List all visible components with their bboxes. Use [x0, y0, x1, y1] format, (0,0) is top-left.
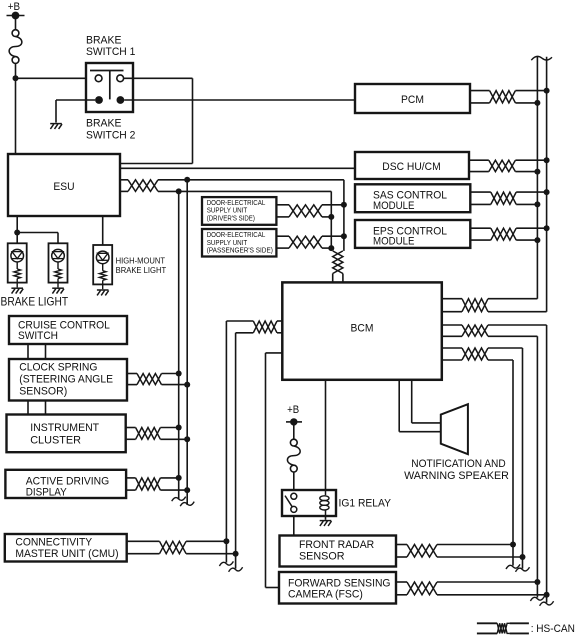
- svg-text:SWITCH 1: SWITCH 1: [86, 46, 135, 58]
- speaker notification and warning: [441, 404, 468, 454]
- module SAS CONTROL MODULE: [355, 184, 470, 212]
- svg-text:MODULE: MODULE: [373, 200, 415, 212]
- wire ESU to high-mount brake light: [102, 216, 104, 245]
- svg-text:FORWARD SENSING: FORWARD SENSING: [288, 577, 391, 589]
- svg-text:BCM: BCM: [351, 322, 374, 334]
- node PCM CAN-L: [534, 100, 540, 106]
- relay IG1 RELAY box: [282, 490, 336, 516]
- node driver CAN-H: [341, 202, 347, 208]
- wire node to brake switch: [16, 77, 96, 79]
- node driver CAN-L: [328, 214, 334, 220]
- module CLOCK SPRING (STEERING ANGLE SENSOR): [9, 359, 127, 401]
- twisted pair BCM to lower right bus: [442, 324, 462, 326]
- twisted pair instrument cluster CAN: [126, 427, 136, 429]
- left CAN bus line B: [186, 180, 188, 505]
- svg-text:DOOR-ELECTRICAL: DOOR-ELECTRICAL: [207, 200, 266, 207]
- node cluster CAN-H: [176, 425, 182, 431]
- twisted pair clock spring CAN: [127, 373, 137, 375]
- wire ESU to DSC HU/CM: [120, 167, 355, 169]
- legend HS-CAN twisted pair symbol: [477, 622, 497, 624]
- node FSC CAN-H: [534, 579, 540, 585]
- svg-text:(DRIVER'S SIDE): (DRIVER'S SIDE): [207, 216, 255, 223]
- svg-text:INSTRUMENT: INSTRUMENT: [30, 422, 99, 434]
- lamp high-mount brake light: [93, 245, 112, 284]
- svg-text:BRAKE LIGHT: BRAKE LIGHT: [1, 294, 69, 308]
- svg-text:MODULE: MODULE: [373, 236, 415, 248]
- node DSC CAN-H: [544, 157, 550, 163]
- wire ESU to brake lights: [16, 216, 18, 243]
- twisted pair BCM to right bus upper: [442, 298, 462, 300]
- wire fuse to relay: [293, 472, 295, 490]
- module DOOR-ELECTRICAL SUPPLY UNIT (PASSENGER'S SIDE): [202, 229, 276, 257]
- svg-text:WARNING SPEAKER: WARNING SPEAKER: [404, 470, 509, 482]
- twisted pair door unit driver: [277, 204, 289, 206]
- wire clock spring to instrument cluster: [27, 401, 29, 415]
- svg-text:DSC HU/CM: DSC HU/CM: [382, 161, 440, 173]
- svg-text:NOTIFICATION AND: NOTIFICATION AND: [411, 458, 505, 470]
- fusible link IG1: [290, 439, 297, 446]
- twisted pair DSC CAN: [469, 159, 489, 161]
- switch plunger bar: [90, 70, 124, 72]
- node CMU CAN-L: [233, 551, 239, 557]
- svg-text:SUPPLY UNIT: SUPPLY UNIT: [207, 240, 248, 247]
- twisted pair BCM to CMU: [277, 320, 282, 322]
- bus terminator CMU B: [229, 567, 243, 572]
- svg-text:IG1 RELAY: IG1 RELAY: [339, 497, 392, 509]
- wire brake switch 2 to ground: [56, 99, 95, 101]
- node SAS CAN-L: [534, 201, 540, 207]
- module ACTIVE DRIVING DISPLAY: [5, 470, 126, 498]
- node display CAN-H: [176, 475, 182, 481]
- svg-text:FRONT RADAR: FRONT RADAR: [299, 539, 374, 551]
- node PCM CAN-H: [544, 88, 550, 94]
- switch BRAKE SWITCH 1/2 box: [86, 63, 133, 112]
- module FRONT RADAR SENSOR: [280, 536, 397, 567]
- wire BCM to speaker minus: [398, 380, 400, 432]
- node +B branch to brake switch: [13, 75, 19, 81]
- node brake light branch: [14, 230, 20, 236]
- twisted pair door unit passenger: [277, 235, 289, 237]
- module ESU: [8, 154, 120, 216]
- node EPS CAN-H: [544, 225, 550, 231]
- twisted pair EPS CAN: [470, 227, 491, 229]
- svg-text:CAMERA (FSC): CAMERA (FSC): [288, 589, 363, 601]
- module FORWARD SENSING CAMERA (FSC): [279, 572, 396, 604]
- wire +B to fuse: [15, 16, 17, 30]
- svg-text:ESU: ESU: [53, 181, 74, 193]
- twisted pair front radar CAN: [396, 544, 407, 546]
- twisted pair PCM CAN: [470, 90, 490, 92]
- svg-text:BRAKE: BRAKE: [86, 35, 122, 47]
- wire CAN pair down to BCM twist: [343, 180, 345, 251]
- wire BCM to speaker plus: [411, 380, 413, 423]
- svg-text:SENSOR: SENSOR: [299, 551, 345, 563]
- lamp brake light 2: [49, 243, 68, 282]
- twisted pair BCM to radar bus: [442, 347, 462, 349]
- vertical twisted pair into BCM: [333, 251, 343, 274]
- wire brake switch 2 to PCM: [124, 99, 355, 101]
- node clock spring CAN-H: [176, 371, 182, 377]
- wire brake switch 1 to ESU: [124, 77, 193, 79]
- twisted pair FSC CAN: [396, 581, 407, 583]
- bus terminator radar B: [516, 567, 530, 572]
- svg-text:CONNECTIVITY: CONNECTIVITY: [15, 537, 92, 549]
- switch 2 contacts: [95, 96, 103, 104]
- twisted pair active driving display CAN: [126, 477, 136, 479]
- relay coil: [325, 490, 327, 495]
- bus terminator A: [172, 497, 186, 502]
- relay switch blade: [285, 496, 292, 507]
- wire radar bus down: [522, 348, 524, 569]
- bus terminator FSC B: [540, 601, 554, 606]
- node clock spring CAN-L: [184, 382, 190, 388]
- twisted pair CMU CAN: [128, 540, 160, 542]
- svg-text:CLUSTER: CLUSTER: [30, 434, 81, 446]
- fusible link (top left): [12, 30, 19, 37]
- svg-text:PCM: PCM: [401, 94, 424, 106]
- svg-text:BRAKE: BRAKE: [86, 118, 122, 130]
- node ESU CAN-H to left bus: [184, 177, 190, 183]
- svg-text:: HS-CAN: : HS-CAN: [531, 623, 575, 635]
- ground brake switch 2: [50, 124, 62, 129]
- svg-text:HIGH-MOUNT: HIGH-MOUNT: [116, 257, 166, 266]
- svg-text:+B: +B: [8, 1, 20, 13]
- module BCM: [282, 282, 442, 379]
- svg-text:DISPLAY: DISPLAY: [26, 487, 67, 499]
- module EPS CONTROL MODULE: [355, 220, 470, 248]
- node passenger CAN-H: [341, 233, 347, 239]
- svg-text:(STEERING ANGLE: (STEERING ANGLE: [19, 374, 113, 386]
- svg-text:SENSOR): SENSOR): [19, 386, 67, 398]
- wire BCM to IG1 relay coil: [325, 380, 327, 490]
- module CRUISE CONTROL SWITCH: [9, 316, 127, 344]
- module INSTRUMENT CLUSTER: [7, 415, 126, 453]
- module DSC HU/CM: [355, 152, 469, 179]
- node SAS CAN-H: [544, 189, 550, 195]
- module DOOR-ELECTRICAL SUPPLY UNIT (DRIVER'S SIDE): [202, 197, 276, 225]
- node DSC CAN-L: [534, 169, 540, 175]
- node cluster CAN-L: [184, 436, 190, 442]
- node radar CAN-L: [520, 554, 526, 560]
- bus terminator FSC A: [530, 596, 544, 601]
- bus terminator radar A: [506, 564, 520, 569]
- svg-text:CLOCK SPRING: CLOCK SPRING: [19, 362, 97, 374]
- wire lower right bus down: [546, 325, 548, 603]
- node FSC CAN-L: [544, 592, 550, 598]
- bus terminator top: [531, 56, 552, 60]
- left CAN bus line A: [178, 191, 180, 499]
- wire relay coil to ground: [325, 516, 327, 520]
- wire cruise switch to clock spring: [27, 344, 29, 359]
- svg-text:SWITCH 2: SWITCH 2: [86, 129, 135, 141]
- wire +B to fuse IG1: [293, 422, 295, 439]
- svg-text:SWITCH: SWITCH: [18, 330, 58, 342]
- module CONNECTIVITY MASTER UNIT (CMU): [5, 534, 127, 562]
- twisted pair SAS CAN: [470, 191, 491, 193]
- bus terminator B: [180, 502, 194, 507]
- ground IG1 relay: [320, 521, 332, 526]
- bus terminator CMU A: [219, 561, 233, 566]
- twisted pair ESU CAN: [120, 179, 128, 181]
- svg-text:(PASSENGER'S SIDE): (PASSENGER'S SIDE): [207, 248, 273, 255]
- svg-text:SUPPLY UNIT: SUPPLY UNIT: [207, 208, 248, 215]
- node radar CAN-H: [510, 542, 516, 548]
- svg-text:+B: +B: [287, 404, 299, 416]
- lamp brake light 1: [8, 243, 27, 282]
- node EPS CAN-L: [534, 237, 540, 243]
- node ESU CAN-L to left bus: [176, 188, 182, 194]
- wire fuse to ESU: [15, 63, 17, 154]
- svg-text:BRAKE LIGHT: BRAKE LIGHT: [116, 266, 167, 275]
- right CAN bus upper lines: [536, 57, 538, 299]
- relay switch contacts: [291, 493, 297, 499]
- node passenger CAN-L: [328, 245, 334, 251]
- wire relay to front radar sensor: [293, 516, 295, 536]
- switch 1 contacts: [95, 75, 102, 82]
- node display CAN-L: [184, 487, 190, 493]
- svg-text:DOOR-ELECTRICAL: DOOR-ELECTRICAL: [207, 232, 266, 239]
- node CMU CAN-H: [223, 538, 229, 544]
- wire BCM to forward sensing camera: [266, 352, 283, 354]
- svg-text:MASTER UNIT (CMU): MASTER UNIT (CMU): [15, 548, 118, 560]
- module PCM: [355, 84, 470, 113]
